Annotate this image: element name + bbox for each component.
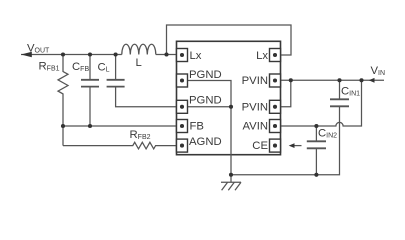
svg-text:AVIN: AVIN (242, 121, 268, 133)
svg-text:CIN2: CIN2 (318, 128, 337, 140)
svg-text:PVIN: PVIN (242, 75, 268, 87)
svg-text:CL: CL (98, 62, 110, 74)
svg-text:VOUT: VOUT (27, 43, 50, 55)
svg-text:CIN1: CIN1 (341, 86, 360, 98)
svg-text:RFB1: RFB1 (39, 61, 60, 73)
svg-text:PGND: PGND (189, 69, 222, 81)
svg-text:VIN: VIN (371, 65, 386, 77)
svg-text:L: L (136, 57, 142, 69)
svg-text:PVIN: PVIN (242, 101, 268, 113)
svg-text:Lx: Lx (190, 50, 202, 62)
svg-text:Lx: Lx (256, 50, 268, 62)
svg-text:AGND: AGND (189, 136, 222, 148)
svg-text:FB: FB (190, 121, 204, 133)
svg-text:RFB2: RFB2 (130, 129, 151, 141)
svg-text:PGND: PGND (189, 95, 222, 107)
svg-text:CE: CE (252, 140, 268, 152)
svg-text:CFB: CFB (72, 61, 89, 73)
